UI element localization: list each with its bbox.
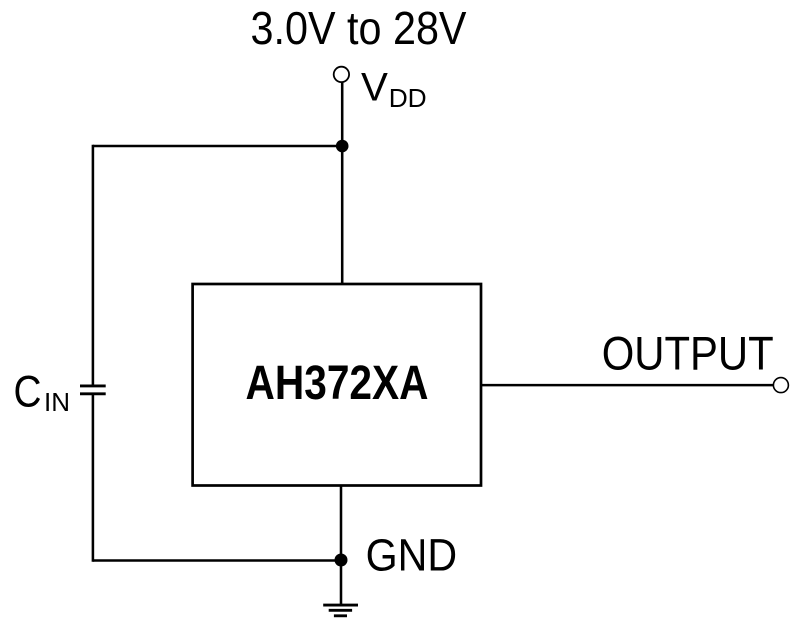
svg-text:IN: IN bbox=[44, 387, 70, 417]
terminal VDD bbox=[334, 67, 349, 82]
node VDD junction bbox=[336, 140, 349, 153]
svg-text:C: C bbox=[14, 368, 42, 417]
label VDD bbox=[361, 65, 427, 114]
svg-text:V: V bbox=[361, 65, 388, 110]
label OUTPUT bbox=[602, 328, 774, 381]
terminal OUTPUT bbox=[773, 378, 788, 393]
IC U1 AH372XA body bbox=[193, 284, 481, 486]
label AH372XA bbox=[246, 357, 429, 410]
supply range label 3.0V to 28V bbox=[251, 2, 467, 54]
svg-text:AH372XA: AH372XA bbox=[246, 357, 429, 410]
wire output horizontal bbox=[481, 384, 773, 387]
svg-text:OUTPUT: OUTPUT bbox=[602, 328, 774, 381]
wire top horizontal (junction to CIN branch) bbox=[93, 145, 342, 148]
wire bottom horizontal (CIN to GND junction) bbox=[93, 559, 341, 562]
wire GND vertical (IC bottom pin to ground) bbox=[340, 486, 343, 606]
label GND bbox=[366, 529, 458, 580]
ground symbol bbox=[323, 605, 358, 616]
svg-text:DD: DD bbox=[389, 83, 427, 113]
wire CIN upper vertical bbox=[92, 145, 95, 386]
svg-text:GND: GND bbox=[366, 529, 458, 580]
label CIN bbox=[14, 368, 71, 417]
capacitor CIN bbox=[80, 386, 106, 394]
wire VDD vertical (terminal to IC top pin) bbox=[341, 82, 344, 284]
node GND junction bbox=[335, 554, 348, 567]
svg-text:3.0V to 28V: 3.0V to 28V bbox=[251, 2, 467, 54]
wire CIN lower vertical bbox=[92, 394, 95, 562]
